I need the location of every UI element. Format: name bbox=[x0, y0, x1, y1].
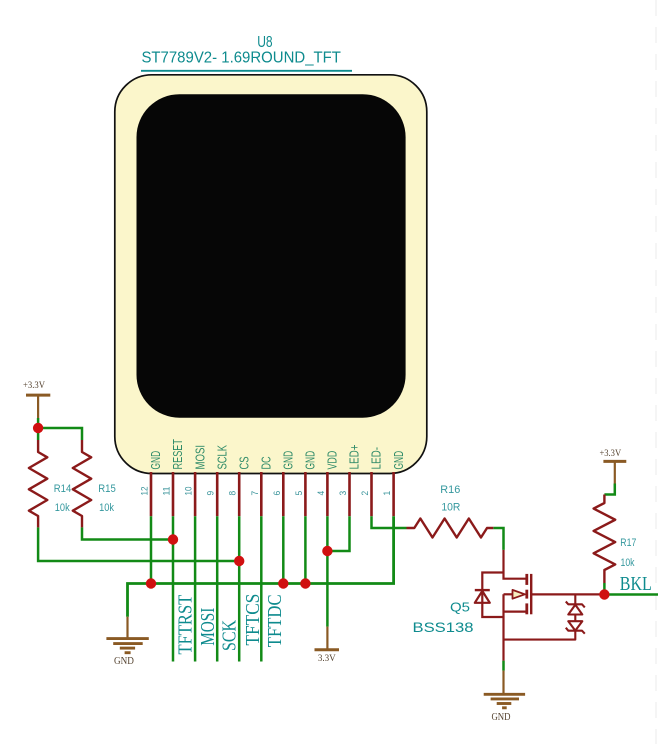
display module U8 body bbox=[115, 75, 427, 474]
svg-text:7: 7 bbox=[250, 491, 260, 496]
svg-text:TFTRST: TFTRST bbox=[175, 594, 197, 654]
wire +3.3V to R15 bbox=[38, 428, 82, 440]
svg-text:BKL: BKL bbox=[620, 573, 652, 595]
U8 screen bbox=[137, 94, 406, 418]
wire +3.3V to R14 bbox=[37, 418, 40, 440]
svg-text:5: 5 bbox=[294, 491, 304, 496]
power +3.3V (right) bbox=[599, 448, 626, 484]
wire R14 to CS bbox=[38, 527, 239, 561]
wire MOSI bbox=[194, 516, 197, 661]
pin 12 (GND) bbox=[140, 451, 164, 516]
wire pin5 to gnd rail bbox=[304, 516, 307, 583]
svg-text:MOSI: MOSI bbox=[197, 608, 219, 646]
junction BKL node bbox=[599, 589, 609, 599]
Q5 gate lead bbox=[531, 593, 601, 595]
Q5 gate esd zener bbox=[504, 594, 585, 639]
pin 7 (DC) bbox=[250, 456, 274, 516]
pin 3 (LED+) bbox=[338, 444, 362, 516]
svg-text:10R: 10R bbox=[441, 501, 460, 513]
junction CS/R14 bbox=[234, 556, 244, 566]
svg-text:GND: GND bbox=[491, 712, 510, 723]
Q5 body arrow bbox=[504, 593, 513, 595]
svg-text:4: 4 bbox=[316, 491, 326, 496]
wire R15 to RESET bbox=[82, 527, 173, 539]
svg-text:3: 3 bbox=[338, 491, 348, 496]
svg-text:CS: CS bbox=[236, 456, 251, 469]
transistor Q5 bbox=[413, 550, 602, 661]
svg-text:LED+: LED+ bbox=[347, 444, 362, 469]
wire +3.3V to R17 bbox=[604, 484, 614, 495]
wire BKL bbox=[604, 593, 658, 596]
wire LED+ to VDD bbox=[327, 516, 349, 551]
pin 5 (GND) bbox=[294, 451, 318, 516]
resistor R14 bbox=[29, 440, 71, 527]
svg-text:10: 10 bbox=[184, 487, 194, 496]
svg-text:R17: R17 bbox=[620, 537, 636, 549]
junction pin5 gnd rail bbox=[300, 578, 310, 588]
page edge ticks bbox=[655, 0, 657, 744]
svg-text:3.3V: 3.3V bbox=[318, 653, 336, 663]
svg-text:R15: R15 bbox=[98, 483, 116, 495]
wire RESET / TFTRST bbox=[172, 516, 175, 661]
svg-text:+3.3V: +3.3V bbox=[599, 448, 621, 458]
Q5 drain lead bbox=[504, 550, 527, 579]
wire DC / TFTDC bbox=[260, 516, 263, 661]
junction VDD/LED+ bbox=[322, 546, 332, 556]
wire R16 to Q5 drain bbox=[493, 528, 503, 550]
power 3.3V (bottom) bbox=[315, 627, 340, 663]
svg-text:R16: R16 bbox=[440, 484, 460, 496]
Q5 gate bar bbox=[530, 574, 532, 614]
svg-text:RESET: RESET bbox=[170, 439, 185, 470]
Q5 channel segments bbox=[525, 574, 528, 585]
wire pin12 to gnd rail bbox=[150, 516, 153, 583]
wire LED- to R16 bbox=[372, 516, 407, 528]
svg-text:10k: 10k bbox=[99, 502, 115, 514]
power +3.3V (left) bbox=[23, 380, 50, 418]
pin 6 (GND) bbox=[272, 451, 296, 516]
svg-text:9: 9 bbox=[206, 491, 216, 496]
wire pin6 to gnd rail bbox=[282, 516, 285, 583]
svg-text:6: 6 bbox=[272, 491, 282, 496]
svg-text:LED-: LED- bbox=[369, 447, 384, 470]
svg-text:12: 12 bbox=[140, 487, 150, 496]
wire CS / TFTCS bbox=[238, 516, 241, 661]
svg-text:GND: GND bbox=[114, 656, 134, 667]
svg-text:2: 2 bbox=[360, 491, 370, 496]
ground (left) bbox=[106, 617, 148, 667]
svg-text:R14: R14 bbox=[54, 483, 72, 495]
svg-text:GND: GND bbox=[391, 451, 406, 470]
Q5 source lead bbox=[504, 610, 527, 612]
wire gnd rail bbox=[128, 516, 394, 617]
pin 9 (SCLK) bbox=[206, 445, 230, 516]
svg-text:GND: GND bbox=[148, 451, 163, 470]
junction pin6 gnd rail bbox=[278, 578, 288, 588]
Q5 body diode bbox=[475, 589, 490, 591]
wire VDD to 3.3V bbox=[326, 516, 329, 626]
resistor R15 bbox=[73, 440, 116, 527]
svg-text:MOSI: MOSI bbox=[192, 445, 207, 470]
svg-text:+3.3V: +3.3V bbox=[23, 380, 45, 390]
svg-text:ST7789V2- 1.69ROUND_TFT: ST7789V2- 1.69ROUND_TFT bbox=[141, 50, 341, 67]
wire SCLK / SCK bbox=[216, 516, 219, 661]
svg-text:SCLK: SCLK bbox=[214, 445, 229, 470]
svg-text:8: 8 bbox=[228, 491, 238, 496]
svg-text:Q5: Q5 bbox=[450, 600, 470, 615]
svg-text:DC: DC bbox=[259, 456, 274, 469]
pin 2 (LED-) bbox=[360, 447, 384, 516]
svg-text:GND: GND bbox=[303, 451, 318, 470]
pin 10 (MOSI) bbox=[184, 445, 208, 516]
pin 8 (CS) bbox=[228, 456, 252, 516]
wire Q5 source to gnd bbox=[502, 661, 505, 671]
svg-text:BSS138: BSS138 bbox=[413, 619, 474, 635]
ground (bottom, Q5 source) bbox=[484, 671, 525, 723]
svg-text:VDD: VDD bbox=[325, 451, 340, 470]
junction RESET/R15 bbox=[168, 534, 178, 544]
svg-text:1: 1 bbox=[382, 491, 392, 496]
svg-text:11: 11 bbox=[162, 487, 172, 496]
Q5 body diode frame bbox=[482, 573, 503, 618]
junction power left bbox=[33, 423, 43, 433]
svg-text:SCK: SCK bbox=[219, 620, 241, 651]
svg-text:10k: 10k bbox=[621, 557, 636, 569]
pin 4 (VDD) bbox=[316, 451, 340, 517]
svg-text:TFTCS: TFTCS bbox=[242, 594, 264, 646]
svg-text:GND: GND bbox=[281, 451, 296, 470]
junction pin12 gnd rail bbox=[146, 578, 156, 588]
pin 11 (RESET) bbox=[162, 439, 186, 516]
svg-text:TFTDC: TFTDC bbox=[264, 594, 286, 647]
Q5 body to source bbox=[502, 594, 504, 660]
pin 1 (GND) bbox=[382, 451, 406, 516]
resistor R17 bbox=[594, 495, 637, 584]
wire R17 to BKL node bbox=[603, 583, 606, 595]
resistor R16 bbox=[407, 484, 494, 538]
svg-text:10k: 10k bbox=[55, 502, 71, 514]
